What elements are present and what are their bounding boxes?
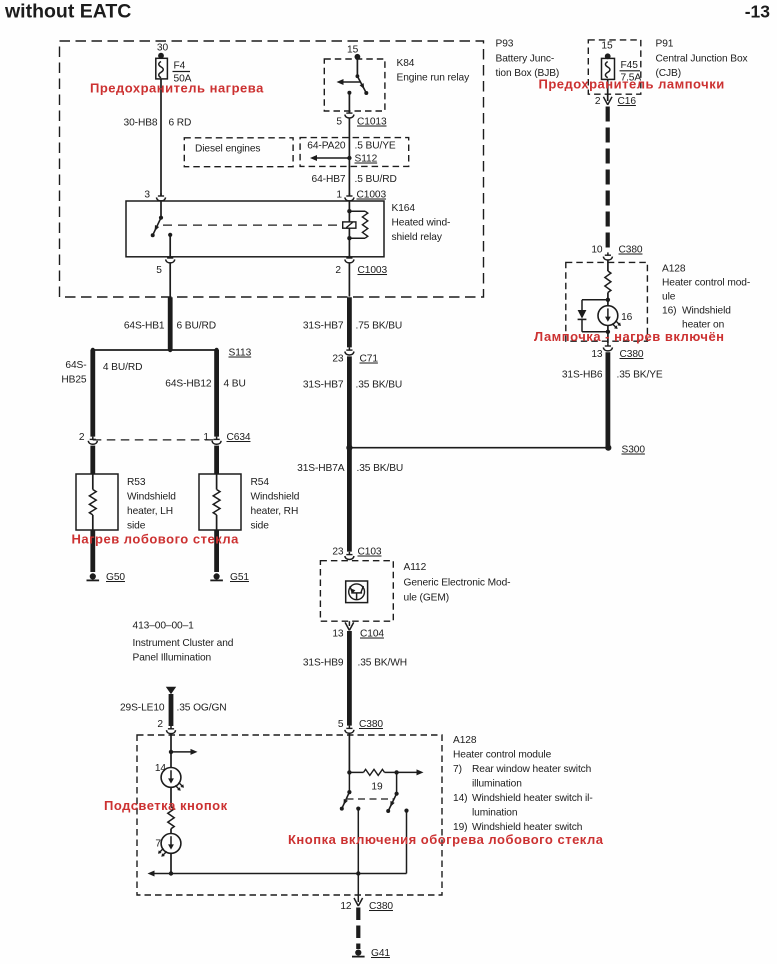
svg-text:illumination: illumination <box>472 779 522 790</box>
svg-text:14: 14 <box>155 763 167 774</box>
svg-text:15: 15 <box>601 41 613 52</box>
svg-text:C16: C16 <box>618 96 637 107</box>
svg-text:C1003: C1003 <box>357 190 387 201</box>
svg-text:G41: G41 <box>371 948 390 959</box>
svg-text:Кнопка включения обогрева лобо: Кнопка включения обогрева лобового стекл… <box>288 832 604 847</box>
svg-text:Engine run relay: Engine run relay <box>397 73 471 84</box>
svg-text:31S-HB6: 31S-HB6 <box>562 370 603 381</box>
svg-text:Подсветка кнопок: Подсветка кнопок <box>104 798 228 813</box>
svg-text:.35 OG/GN: .35 OG/GN <box>177 703 227 714</box>
svg-text:31S-HB7A: 31S-HB7A <box>297 463 345 474</box>
svg-text:4 BU: 4 BU <box>224 379 246 390</box>
svg-text:.35 BK/WH: .35 BK/WH <box>358 658 408 669</box>
svg-text:C71: C71 <box>360 354 379 365</box>
svg-text:R53: R53 <box>127 477 146 488</box>
svg-text:lumination: lumination <box>472 808 517 819</box>
svg-text:Rear window heater switch: Rear window heater switch <box>472 764 591 775</box>
svg-text:64-PA20: 64-PA20 <box>307 141 346 152</box>
svg-text:C104: C104 <box>360 629 384 640</box>
svg-text:heater on: heater on <box>682 320 724 331</box>
svg-text:2: 2 <box>79 432 85 443</box>
svg-text:C1013: C1013 <box>357 117 387 128</box>
svg-text:1: 1 <box>336 190 342 201</box>
svg-text:10: 10 <box>591 245 603 256</box>
svg-text:K84: K84 <box>397 58 415 69</box>
svg-text:5: 5 <box>338 719 344 730</box>
svg-text:G51: G51 <box>230 572 249 583</box>
svg-text:15: 15 <box>347 45 359 56</box>
svg-text:C380: C380 <box>620 349 644 360</box>
svg-text:.75 BK/BU: .75 BK/BU <box>356 321 403 332</box>
svg-text:64S-HB1: 64S-HB1 <box>124 321 165 332</box>
svg-text:C380: C380 <box>369 901 393 912</box>
svg-text:64S-HB12: 64S-HB12 <box>165 379 212 390</box>
svg-text:P93: P93 <box>496 39 514 50</box>
svg-text:heater, LH: heater, LH <box>127 506 173 517</box>
svg-text:A128: A128 <box>662 264 686 275</box>
svg-text:R54: R54 <box>251 477 270 488</box>
svg-text:S112: S112 <box>355 154 378 165</box>
svg-text:31S-HB7: 31S-HB7 <box>303 321 344 332</box>
svg-text:F45: F45 <box>621 60 639 71</box>
svg-text:64S-: 64S- <box>65 360 86 371</box>
svg-text:31S-HB9: 31S-HB9 <box>303 658 344 669</box>
svg-text:A112: A112 <box>404 562 427 573</box>
svg-text:(CJB): (CJB) <box>656 68 682 79</box>
svg-text:K164: K164 <box>392 203 416 214</box>
svg-text:.35 BK/BU: .35 BK/BU <box>357 463 404 474</box>
svg-text:.5 BU/YE: .5 BU/YE <box>355 141 396 152</box>
svg-text:30-HB8: 30-HB8 <box>124 118 158 129</box>
svg-text:.5 BU/RD: .5 BU/RD <box>355 174 397 185</box>
svg-text:29S-LE10: 29S-LE10 <box>120 703 165 714</box>
svg-text:64-HB7: 64-HB7 <box>312 174 346 185</box>
svg-text:31S-HB7: 31S-HB7 <box>303 380 344 391</box>
svg-text:1: 1 <box>203 432 209 443</box>
svg-text:13: 13 <box>591 349 603 360</box>
svg-text:F4: F4 <box>174 61 186 72</box>
svg-text:Лампочка - нагрев включён: Лампочка - нагрев включён <box>534 329 725 344</box>
svg-text:Windshield: Windshield <box>682 306 731 317</box>
svg-text:3: 3 <box>144 190 150 201</box>
svg-text:side: side <box>251 521 270 532</box>
svg-text:G50: G50 <box>106 572 125 583</box>
svg-text:C380: C380 <box>619 245 643 256</box>
svg-text:S300: S300 <box>622 445 646 456</box>
svg-text:Windshield heater switch: Windshield heater switch <box>472 822 582 833</box>
svg-text:30: 30 <box>157 43 169 54</box>
svg-text:Diesel engines: Diesel engines <box>195 144 260 155</box>
svg-text:16): 16) <box>662 306 676 317</box>
svg-text:Battery Junc-: Battery Junc- <box>496 54 555 65</box>
svg-text:6 BU/RD: 6 BU/RD <box>177 321 217 332</box>
svg-text:C634: C634 <box>227 432 251 443</box>
svg-text:Panel Illumination: Panel Illumination <box>133 653 212 664</box>
svg-text:C380: C380 <box>359 719 383 730</box>
svg-text:2: 2 <box>595 96 601 107</box>
svg-text:-13: -13 <box>745 2 771 22</box>
svg-text:.35 BK/YE: .35 BK/YE <box>617 370 663 381</box>
svg-text:2: 2 <box>157 719 163 730</box>
svg-text:50A: 50A <box>174 74 192 85</box>
svg-text:6 RD: 6 RD <box>169 118 192 129</box>
svg-text:ule: ule <box>662 292 676 303</box>
svg-text:12: 12 <box>340 901 352 912</box>
svg-text:Windshield: Windshield <box>251 492 300 503</box>
svg-text:.35 BK/BU: .35 BK/BU <box>356 380 403 391</box>
svg-text:19: 19 <box>371 782 383 793</box>
svg-text:C1003: C1003 <box>358 265 388 276</box>
svg-text:without EATC: without EATC <box>4 1 131 23</box>
svg-text:ule (GEM): ule (GEM) <box>404 593 450 604</box>
svg-text:14): 14) <box>453 793 467 804</box>
svg-text:16: 16 <box>621 312 633 323</box>
svg-text:Heated wind-: Heated wind- <box>392 218 451 229</box>
svg-text:5: 5 <box>156 265 162 276</box>
svg-text:2: 2 <box>335 265 341 276</box>
svg-text:23: 23 <box>332 354 344 365</box>
svg-text:shield relay: shield relay <box>392 232 443 243</box>
svg-text:Windshield heater switch il-: Windshield heater switch il- <box>472 793 593 804</box>
svg-text:A128: A128 <box>453 735 477 746</box>
svg-text:side: side <box>127 521 146 532</box>
svg-text:7): 7) <box>453 764 462 775</box>
svg-text:7.5A: 7.5A <box>621 73 642 84</box>
svg-text:C103: C103 <box>358 547 382 558</box>
svg-text:13: 13 <box>332 629 344 640</box>
svg-text:heater, RH: heater, RH <box>251 506 299 517</box>
svg-text:tion Box (BJB): tion Box (BJB) <box>496 68 560 79</box>
svg-text:413–00–00–1: 413–00–00–1 <box>133 621 195 632</box>
svg-text:5: 5 <box>336 117 342 128</box>
svg-text:Instrument Cluster and: Instrument Cluster and <box>133 638 234 649</box>
svg-text:4 BU/RD: 4 BU/RD <box>103 362 142 373</box>
svg-text:Нагрев лобового стекла: Нагрев лобового стекла <box>72 532 240 547</box>
svg-text:Central Junction Box: Central Junction Box <box>656 54 748 65</box>
svg-text:P91: P91 <box>656 39 674 50</box>
svg-text:7: 7 <box>155 839 161 850</box>
svg-text:19): 19) <box>453 822 467 833</box>
svg-text:Heater control mod-: Heater control mod- <box>662 278 750 289</box>
svg-text:Windshield: Windshield <box>127 492 176 503</box>
svg-text:HB25: HB25 <box>61 375 87 386</box>
svg-text:Heater control module: Heater control module <box>453 750 552 761</box>
svg-text:23: 23 <box>332 547 344 558</box>
svg-text:S113: S113 <box>229 348 252 359</box>
svg-text:Generic Electronic Mod-: Generic Electronic Mod- <box>404 578 511 589</box>
